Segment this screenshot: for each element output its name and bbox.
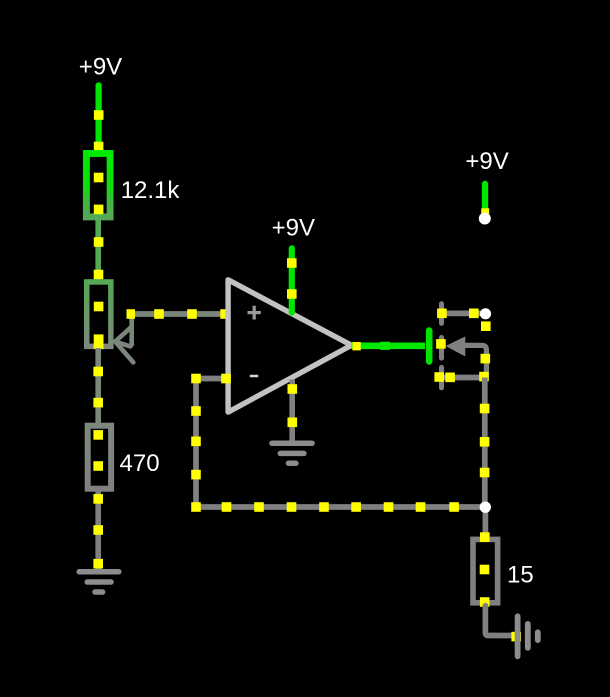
wire: +9V rail lead to op-amp power [287, 248, 297, 312]
wire: R3 to ground [93, 492, 103, 569]
transistor Q1 drain post (unconnected) [480, 308, 491, 319]
resistor R4 15 [473, 532, 498, 607]
svg-text:+9V: +9V [79, 53, 122, 80]
wire: R4 to ground (right) [485, 606, 521, 642]
+9V rail post (unconnected, right) [479, 213, 491, 225]
transistor Q1 n-MOSFET gate bar [426, 327, 433, 364]
wire: +9V rail lead (left) [94, 85, 104, 151]
wire: R1 to potentiometer [94, 220, 104, 280]
svg-text:12.1k: 12.1k [121, 177, 181, 204]
node junction (output/feedback) [480, 502, 491, 513]
transistor Q1 source lead [434, 372, 488, 382]
wire: feedback horizontal [191, 502, 485, 512]
wire: feedback vertical [191, 374, 201, 507]
potentiometer wiper arrow [115, 317, 133, 362]
wire: junction down to R4 [483, 507, 489, 540]
resistor R1 12.1k [86, 154, 110, 217]
wire: feedback minus input lead [196, 374, 231, 384]
transistor Q1 channel segments [439, 304, 444, 388]
resistor R3 470 [88, 426, 111, 489]
wire: Q1 source down to junction [480, 378, 490, 508]
ground (left) [79, 572, 119, 592]
svg-text:+9V: +9V [272, 214, 315, 241]
transistor Q1 drain lead [437, 309, 485, 319]
ground (right, rotated) [518, 616, 538, 656]
wire: op-amp ground lead [288, 380, 298, 442]
transistor Q1 bulk arrow [436, 336, 490, 377]
wire: op-amp output to Q1 gate [352, 342, 426, 351]
minus input marker [250, 375, 258, 378]
wire: wiper to op-amp + input [127, 309, 230, 319]
current dot below drain post [481, 321, 491, 331]
op-amp U1 [228, 280, 351, 412]
plus input marker [248, 311, 261, 314]
svg-text:+9V: +9V [465, 148, 508, 175]
potentiometer R2 body [87, 282, 111, 349]
wire: potentiometer to R3 [93, 348, 103, 424]
ground (op-amp) [272, 443, 312, 463]
wire: +9V rail lead (right) [481, 184, 489, 214]
svg-text:470: 470 [120, 450, 160, 477]
svg-text:15: 15 [507, 562, 534, 589]
